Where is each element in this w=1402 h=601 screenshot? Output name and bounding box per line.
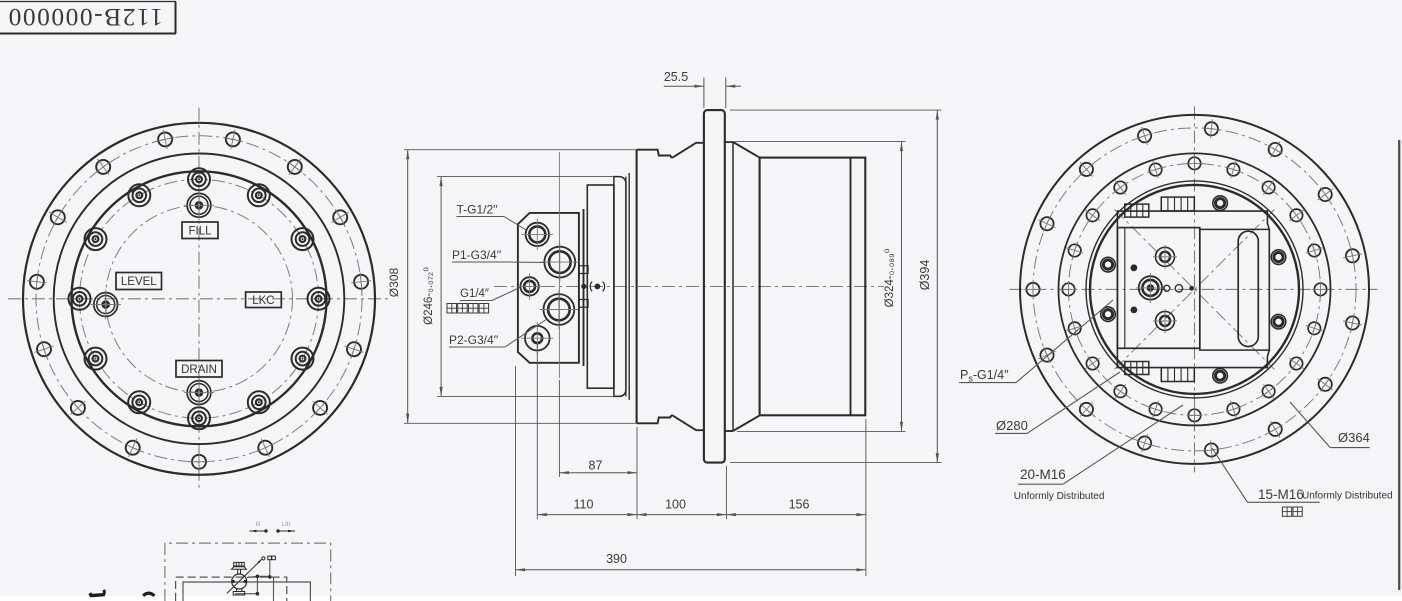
schematic dashed box [176,577,287,601]
valve body left rect [1117,228,1199,349]
dim ext x=637 [636,427,638,519]
right view outer bolt 13 [1268,421,1283,438]
valve dot lower [1131,307,1138,314]
gear ring A [587,185,614,388]
left view middle circle [54,153,345,444]
right view outer bolt 8 [1024,281,1043,298]
right view inner bolt 3 [1114,180,1127,195]
land top [725,141,733,143]
right view outer bolt 2 [1318,188,1333,202]
svg-text:Ø280: Ø280 [996,418,1028,433]
left view inner bolt 8 with ear [85,348,107,370]
face pin dot 1 [581,284,586,289]
right view inner bolt 7 [1066,321,1083,336]
right view outer bolt 15 [1343,315,1362,332]
svg-text:112B-000000: 112B-000000 [7,3,163,32]
valve small circle 2 [1175,285,1182,292]
left view inner bolt 12 with ear [292,348,314,370]
svg-text:25.5: 25.5 [664,70,688,84]
left view inner bolt 2 with ear [292,228,314,250]
dim 25.5 line [664,85,704,87]
left view outer bolt 11 [313,401,328,415]
right view inner bolt 5 [1066,243,1083,258]
drum chamfer top [733,142,760,158]
dim phi324 extension lines [726,141,905,143]
right view inner bolt 14 [1289,357,1304,370]
left view inner bolt 3 with ear [248,184,270,206]
left view vertical centerline [198,108,200,492]
right view inner bolt 11 [1187,406,1203,424]
left view inner bolt 1 with ear [308,288,330,310]
svg-text:156: 156 [789,498,810,512]
title block frame [0,1,176,3]
right view inner bolt 18 [1289,209,1304,222]
schematic dash-dot border [165,543,331,601]
port P1-G3/4 [540,243,579,282]
svg-text:15-M16: 15-M16 [1258,487,1304,502]
label kongzhiyoukou (CJK) [447,304,457,314]
svg-text:G1/4″: G1/4″ [460,288,489,300]
svg-text:Unformly Distributed: Unformly Distributed [1302,491,1393,502]
left view outer bolt 14 [332,210,349,226]
face step rect top [579,266,588,274]
LEVEL label box [116,273,162,290]
dim 110 [537,514,637,516]
right view inner bolt 13 [1262,384,1275,399]
svg-text:P1-G3/4′′: P1-G3/4′′ [452,248,502,262]
svg-text:LEVEL: LEVEL [121,276,157,288]
svg-text:100: 100 [665,498,686,512]
dim ext x=865.9 [865,419,867,576]
valve center port [1139,276,1162,299]
svg-text:Ø394: Ø394 [918,260,932,291]
right view inner bolt 6 [1060,281,1078,297]
block bolt 1 [1213,196,1228,211]
port block face line [578,213,580,363]
housing face line [636,150,638,424]
valve port upper [1156,247,1175,266]
port block outline [518,213,579,363]
dim phi394 line [936,110,938,463]
drum rim line [850,158,852,416]
schematic fitting [262,557,265,560]
svg-text:T-G1/2′′: T-G1/2′′ [457,203,499,217]
left view outer bolt 5 [27,273,47,291]
left view port circle (dash-dot) [106,205,293,392]
right view horizontal centerline [1010,288,1378,290]
dim phi308 extension lines [404,149,637,151]
block bolt 6 [1271,314,1286,329]
dim phi324 line [901,142,903,432]
housing top profile [637,143,704,158]
middle view horizontal centerline [494,286,884,288]
svg-text:LIII: LIII [282,522,291,528]
left view inner bolt 7 with ear [69,288,91,310]
right view vertical centerline [1194,106,1196,472]
left view outer bolt 12 [345,341,364,358]
right view outer bolt 12 [1203,441,1220,460]
right view outer bolt 14 [1318,378,1333,392]
dim ext x=726.4 [725,466,727,519]
svg-text:390: 390 [606,552,627,566]
right view inner bolt 2 [1148,161,1163,178]
left view outer bolt 13 [351,273,371,291]
schematic junction dots [256,575,260,579]
right view outer bolt 5 [1137,127,1153,145]
schematic solid box [183,582,310,601]
tab bottom-mid [1161,368,1194,382]
face step rect bottom [579,300,588,308]
right view outer bolt 6 [1080,162,1093,176]
valve right rect [1200,229,1270,350]
right view cover ring inner [1090,185,1299,394]
left view outer bolt 10 [257,439,273,457]
right view diagonal centerline 2 [1115,209,1275,369]
valve block outline [1117,211,1269,368]
block bolt 5 [1271,250,1286,265]
right view outer bolt 10 [1080,402,1093,416]
svg-text:P2-G3/4′′: P2-G3/4′′ [449,333,499,347]
rib (mounting flange) [704,110,725,463]
right view inner bolt 10 [1148,401,1163,418]
left view DRAIN port [184,378,214,408]
dim phi394 extension lines [730,109,942,111]
svg-text:Ø364: Ø364 [1338,430,1370,445]
ring line 1 [625,177,627,397]
left view outer bolt 9 [190,452,208,472]
right view middle circle [1059,153,1331,425]
svg-text:LKC: LKC [252,295,274,307]
valve port lower [1156,311,1175,330]
left view FILL port [184,190,214,220]
right view outer circle [1020,115,1369,464]
right view inner bolt 19 [1262,180,1275,195]
port block vertical centerline [558,152,560,378]
port T-G1/2 [522,219,553,250]
valve small circle 1 [1164,285,1170,291]
right view outer bolt 1 [1343,248,1362,265]
right view inner bolt 17 [1306,243,1323,258]
left view outer bolt 15 [288,159,303,175]
drum chamfer bottom [733,415,760,431]
FILL label box [182,222,218,239]
left view inner bolt 10 with ear [188,407,210,429]
left view outer bolt 6 [35,341,54,358]
left view outer bolt 4 [49,210,66,226]
right view outer bolt 3 [1268,141,1283,158]
right view outer bolt 4 [1203,119,1220,138]
left view outer bolt 3 [96,159,111,175]
block bolt 4 [1213,368,1228,383]
right view outer bolt circle (dash-dot) [1033,128,1356,451]
drum outline [760,158,866,416]
right view inner bolt 4 [1085,209,1100,222]
left view inner bolt 11 with ear [248,391,270,413]
left view inner bolt 9 with ear [128,391,150,413]
flow arrow right [278,530,295,532]
dim 156 [726,514,866,516]
port P2-G3/4 [540,290,579,329]
land edge line [732,142,734,431]
svg-text:Ps-G1/4″: Ps-G1/4″ [960,368,1009,384]
ring line 2 [628,173,630,400]
schematic relief valve [234,562,245,566]
DRAIN label box [176,361,222,378]
dim 390 [516,569,866,571]
right view inner bolt 15 [1306,321,1323,336]
svg-text:Ø246-₀.₀₇₂⁰: Ø246-₀.₀₇₂⁰ [423,267,435,325]
svg-text:Ø324-₀.₀₈₉⁰: Ø324-₀.₀₈₉⁰ [884,248,896,307]
valve dot upper [1131,264,1138,271]
left view LEVEL port [91,290,121,320]
schematic bottom stem [236,589,238,592]
svg-text:DRAIN: DRAIN [181,364,217,376]
face pin dot 2 [595,284,601,290]
right view outer bolt 11 [1137,434,1153,452]
right view cover ring outer [1086,181,1303,398]
label tongkong (CJK) [1282,507,1291,516]
left view inner bolt 5 with ear [128,184,150,206]
valve body inner line [1124,228,1126,349]
right view inner bolt 16 [1312,281,1330,297]
dim ext x=515.5 [515,366,517,576]
left view outer bolt circle (dash-dot) [36,136,362,462]
dim 100 [637,514,726,516]
dim phi308 line [407,150,409,424]
right view inner bolt 1 [1187,154,1203,172]
right view inner bolt 20 [1226,161,1241,178]
right view outer bolt 7 [1038,216,1055,232]
housing bottom profile [637,416,704,431]
left view inner bolt 6 with ear [85,228,107,250]
right view outer bolt 9 [1038,347,1055,363]
port G1/4 [516,273,542,299]
tab top-mid [1161,197,1194,211]
schematic motor circle [232,574,247,589]
left view outer flange circle [23,123,375,475]
valve stadium slot [1238,231,1258,346]
flow arrow left [249,530,266,532]
dim 25.5 extension lines [703,78,705,109]
gear ring B [614,177,626,397]
tab top-left [1125,204,1149,217]
left view outer bolt 7 [70,401,85,415]
svg-text:Ø308: Ø308 [387,267,401,297]
dim phi246 line [440,177,442,397]
block bolt 3 [1101,307,1116,322]
port bottom drain [521,322,554,355]
view center dot [1189,286,1194,291]
block bolt 2 [1101,257,1116,272]
tab bottom-left [1125,362,1149,375]
sheet right edge line [1398,140,1400,590]
right view inner bolt 12 [1226,401,1241,418]
land bottom [725,430,733,432]
schematic wires [269,560,271,577]
svg-text:87: 87 [589,459,603,473]
svg-text:20-M16: 20-M16 [1020,467,1066,482]
right view inner bolt 8 [1085,357,1100,370]
right view inner bolt 9 [1114,384,1127,399]
dim phi246 extension lines [437,176,614,178]
svg-text:Unformly Distributed: Unformly Distributed [1014,491,1105,502]
svg-text:III: III [255,522,260,528]
schematic motor arrow [227,559,262,593]
schematic port dots [232,580,235,583]
cut glyph t [90,593,104,595]
cut glyph o [143,593,154,596]
svg-text:110: 110 [574,498,594,512]
right view diagonal centerline 1 [1115,209,1275,369]
LKC label box [246,292,282,308]
dim ext x=537.3 [536,344,538,519]
right view inner bolt circle (dash-dot) [1069,163,1321,415]
left view outer bolt 1 [224,130,242,150]
left view outer bolt 8 [125,439,141,457]
left view inner bolt circle (dash-dot) [80,179,319,418]
dim 87 [559,472,637,474]
svg-text:FILL: FILL [188,225,212,237]
left view outer bolt 2 [156,130,174,150]
left view horizontal centerline [8,298,392,300]
dim ext x=559.4 [558,380,560,477]
left view inner bolt 4 with ear [188,168,210,190]
left view scalloped cover circle [72,171,327,426]
